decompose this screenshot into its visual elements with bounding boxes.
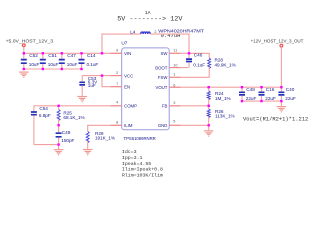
svg-text:VCC: VCC xyxy=(124,73,133,78)
svg-text:4: 4 xyxy=(116,101,118,105)
pin stub ILIM xyxy=(111,124,122,126)
wire: FB row xyxy=(169,105,209,107)
wire: VCC row xyxy=(82,75,122,77)
junction (242,101.1) xyxy=(241,100,243,102)
svg-text:11: 11 xyxy=(173,48,177,52)
svg-text:3: 3 xyxy=(173,101,175,105)
svg-text:10uF: 10uF xyxy=(48,62,59,67)
svg-text:C47: C47 xyxy=(67,53,76,58)
junction (208.7,87.2) xyxy=(208,86,210,88)
resistor R25 xyxy=(57,109,85,120)
svg-text:191K_1%: 191K_1% xyxy=(95,135,115,140)
svg-text:150pF: 150pF xyxy=(61,138,74,143)
svg-text:ILIM: ILIM xyxy=(124,123,133,128)
wire: R26 to GND row xyxy=(208,117,210,126)
svg-text:VOUT: VOUT xyxy=(155,85,167,90)
junction (189.0,53.3) xyxy=(188,52,190,54)
junction (61.8,69) xyxy=(61,68,63,70)
svg-text:10uF: 10uF xyxy=(67,62,78,67)
svg-text:VIN: VIN xyxy=(124,51,131,56)
pin stub VCC xyxy=(111,75,122,77)
svg-text:1M_1%: 1M_1% xyxy=(215,96,231,101)
wire: C54/C49 bottom link xyxy=(34,144,59,146)
svg-text:C48: C48 xyxy=(246,87,255,92)
wire: COMP to R25 xyxy=(58,106,60,110)
wire: SW row to R28 xyxy=(169,53,209,58)
junction (242,87.2) xyxy=(241,86,243,88)
capacitor C54 xyxy=(31,106,51,145)
svg-text:C49: C49 xyxy=(62,130,71,135)
junction (261.5,87.2) xyxy=(260,86,262,88)
svg-text:0.1uF: 0.1uF xyxy=(193,63,205,68)
svg-text:0.1uF: 0.1uF xyxy=(87,62,99,67)
resistor R26 xyxy=(207,109,234,119)
wire: R25 to C49 xyxy=(58,119,60,132)
wire: GND row xyxy=(169,124,209,126)
wire: BOOT row xyxy=(169,67,188,69)
svg-text:COMP: COMP xyxy=(124,104,137,109)
svg-text:C54: C54 xyxy=(39,106,48,111)
junction (58.6,125.2) xyxy=(57,124,59,126)
junction (208.7,125.3) xyxy=(208,124,210,126)
junction (102.0,53.3) xyxy=(101,52,103,54)
svg-text:10uF: 10uF xyxy=(29,62,40,67)
capacitor C46 xyxy=(186,53,205,68)
ground under C40 xyxy=(277,107,287,112)
resistor R29 xyxy=(86,131,115,143)
wire: R26 top lead xyxy=(208,106,210,109)
capacitor C49 xyxy=(56,125,75,144)
wire: +12V drop to VOUT rail xyxy=(280,47,282,87)
svg-text:49.9K_1%: 49.9K_1% xyxy=(215,62,236,67)
pin stub COMP xyxy=(111,105,122,107)
capacitor C51 xyxy=(40,53,59,69)
annotation design calc xyxy=(122,149,163,179)
capacitor C47 xyxy=(59,53,78,69)
svg-text:0.47uH: 0.47uH xyxy=(161,32,181,39)
wire: EN row up to VCC xyxy=(102,76,122,87)
svg-text:U7: U7 xyxy=(121,40,127,45)
wire: R24 to FB node xyxy=(208,99,210,106)
svg-text:BOOT: BOOT xyxy=(155,65,168,70)
svg-text:Vout=(R1/R2+1)*1.212: Vout=(R1/R2+1)*1.212 xyxy=(243,115,308,122)
svg-text:9: 9 xyxy=(116,49,118,53)
svg-text:C14: C14 xyxy=(87,53,96,58)
svg-text:SW: SW xyxy=(160,51,168,56)
pin stub BOOT xyxy=(169,67,180,69)
IC U7 TPS61089 xyxy=(121,40,169,140)
svg-text:Ilim=Ipeak+0.8: Ilim=Ipeak+0.8 xyxy=(122,167,163,173)
svg-text:C52: C52 xyxy=(29,53,38,58)
junction (281.4,101.1) xyxy=(280,100,282,102)
svg-text:Ipeak=4.55: Ipeak=4.55 xyxy=(122,161,151,167)
svg-text:Rlim=103K/Ilim: Rlim=103K/Ilim xyxy=(122,173,163,179)
svg-text:10: 10 xyxy=(173,63,177,67)
ground under R26 xyxy=(204,131,214,136)
wire: inductor to SW drop xyxy=(150,34,189,53)
wire: VIN rail up to inductor xyxy=(102,34,141,53)
svg-text:22uF: 22uF xyxy=(265,96,276,101)
inductor L4 xyxy=(130,29,204,39)
wire: R29 to gnd xyxy=(87,142,89,150)
svg-text:Idc=3: Idc=3 xyxy=(122,149,137,155)
junction (58.6,105.8) xyxy=(57,105,59,107)
wire: R28 to FSW xyxy=(169,67,209,77)
junction (81.5,69) xyxy=(80,68,82,70)
junction (102.0,75.6) xyxy=(101,74,103,76)
junction (23.8,69) xyxy=(23,68,25,70)
svg-text:5: 5 xyxy=(173,120,175,124)
wire: left caps bottom rail xyxy=(24,68,82,70)
resistor R28 xyxy=(208,58,236,69)
svg-text:8: 8 xyxy=(116,120,118,124)
wire: COMP rail xyxy=(34,105,122,107)
svg-text:EN: EN xyxy=(124,84,130,89)
svg-text:1uF: 1uF xyxy=(88,83,96,88)
svg-text:C16: C16 xyxy=(266,87,275,92)
wire: VIN rail xyxy=(24,52,122,54)
svg-text:1: 1 xyxy=(173,73,175,77)
wire: ILIM row to R29 xyxy=(88,125,122,131)
capacitor C48 xyxy=(239,87,256,101)
pin stub FB xyxy=(169,105,180,107)
svg-text:TPS61089RNRR: TPS61089RNRR xyxy=(124,136,157,141)
junction (81.5,53.3) xyxy=(80,52,82,54)
svg-text:GND: GND xyxy=(158,123,168,128)
junction (281.4,87.2) xyxy=(280,86,282,88)
junction (61.8,53.3) xyxy=(61,52,63,54)
svg-text:2: 2 xyxy=(116,71,118,75)
pin stub VOUT xyxy=(169,86,180,88)
resistor R24 xyxy=(207,91,230,101)
svg-text:C46: C46 xyxy=(194,53,203,58)
svg-text:FB: FB xyxy=(162,104,168,109)
junction (208.7,105.8) xyxy=(208,105,210,107)
pin stub SW xyxy=(169,52,180,54)
svg-text:7: 7 xyxy=(116,82,118,86)
pin stub FSW xyxy=(169,76,180,78)
pin stub VIN xyxy=(111,52,122,54)
svg-text:Ipp=3.1: Ipp=3.1 xyxy=(122,155,143,161)
junction (261.5,101.1) xyxy=(260,100,262,102)
svg-text:6.8pF: 6.8pF xyxy=(39,113,51,118)
svg-text:+5.0V_HOST_12V_3: +5.0V_HOST_12V_3 xyxy=(6,38,54,44)
wire: output caps bottom rail xyxy=(242,100,281,102)
svg-text:22uF: 22uF xyxy=(246,96,257,101)
svg-text:C40: C40 xyxy=(286,87,295,92)
wire: VOUT rail xyxy=(169,86,281,88)
svg-text:FSW: FSW xyxy=(158,75,168,80)
svg-text:C51: C51 xyxy=(48,53,57,58)
junction (58.6,144.6) xyxy=(57,143,59,145)
capacitor C16 xyxy=(259,87,276,101)
capacitor C40 xyxy=(278,87,296,101)
junction (42.8,53.3) xyxy=(42,52,44,54)
junction (42.8,69) xyxy=(42,68,44,70)
svg-text:113K_1%: 113K_1% xyxy=(215,113,235,118)
capacitor C53 xyxy=(79,76,98,94)
svg-text:5V --------> 12V: 5V --------> 12V xyxy=(117,16,183,24)
wire: +5V label drop xyxy=(23,47,25,54)
ground under C53 xyxy=(77,97,87,102)
ground under R29 xyxy=(83,150,93,155)
pin stub EN xyxy=(111,86,122,88)
junction (23.8,53.3) xyxy=(23,52,25,54)
wire: R24 top lead xyxy=(208,87,210,91)
pin stub GND xyxy=(169,124,180,126)
svg-text:22uF: 22uF xyxy=(285,96,296,101)
svg-text:L4: L4 xyxy=(130,29,136,34)
svg-text:+12V_HOST_12V_3_OUT: +12V_HOST_12V_3_OUT xyxy=(251,38,304,44)
svg-text:68.1K_1%: 68.1K_1% xyxy=(63,115,84,120)
capacitor C14 xyxy=(79,53,99,69)
capacitor C52 xyxy=(21,53,40,69)
ground under C49 xyxy=(54,150,64,155)
ground left caps xyxy=(19,72,29,77)
